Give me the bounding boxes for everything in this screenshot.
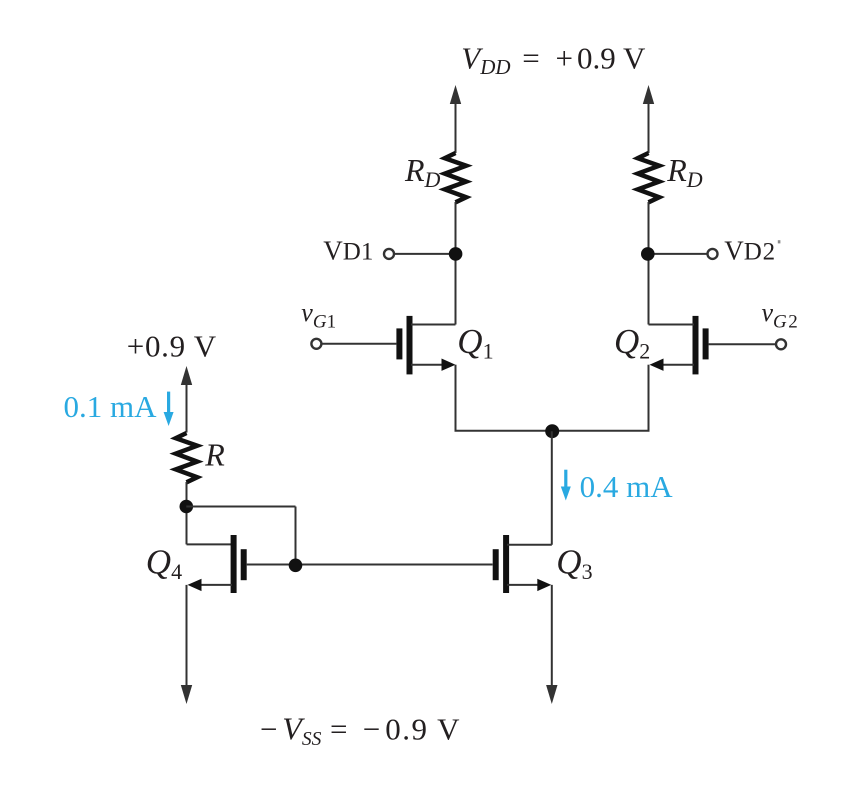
wire vD2 stub	[649, 253, 708, 255]
resistor RD2	[638, 153, 659, 202]
terminal vD1 open circle	[384, 249, 394, 259]
wire Q3 source down with arrow	[546, 585, 557, 704]
svg-text:RD: RD	[666, 152, 703, 192]
svg-text:VDD=+0.9 V: VDD=+0.9 V	[461, 41, 646, 79]
Q4 source wire with arrow	[198, 584, 232, 586]
svg-text:Q1: Q1	[457, 322, 493, 364]
Q1 gate wire	[322, 343, 397, 345]
Q2 source wire with arrow	[660, 364, 694, 366]
wire gate rail Q4 to Q3	[247, 564, 493, 566]
Q3 drain wire	[507, 544, 552, 546]
Q2 gate bar	[703, 328, 709, 359]
wire Q4 drain horizontal	[187, 543, 235, 545]
Q4 gate bar	[241, 549, 247, 580]
terminal vG1 open circle	[311, 339, 321, 349]
wire Q1 source down	[455, 365, 457, 431]
Q1 gate bar	[396, 328, 402, 359]
wire Q4 source down with arrow	[181, 585, 192, 704]
transistor Q3	[493, 535, 552, 593]
Q1 drain wire	[411, 324, 456, 326]
svg-text:vG1: vG1	[301, 298, 336, 333]
transistor Q4	[188, 535, 247, 593]
Q1 source wire with arrow	[411, 364, 445, 366]
svg-text:vG2: vG2	[762, 298, 798, 333]
current arrow 0.4 mA (cyan)	[561, 470, 571, 501]
Q3 source wire with arrow	[507, 584, 541, 586]
transistor Q2	[649, 316, 787, 375]
svg-text:−VSS=−0.9 V: −VSS=−0.9 V	[260, 710, 461, 750]
svg-text:Q3: Q3	[556, 542, 592, 584]
wire R bottom through node to Q4 drain corner	[186, 482, 188, 544]
Q4 channel bar	[231, 535, 237, 593]
node gate rail junction dot	[289, 559, 303, 573]
wire diode connection node to gate column	[186, 506, 295, 508]
Q3 channel bar	[503, 535, 509, 593]
svg-text:VD2: VD2	[724, 236, 776, 266]
wire left supply with up arrow	[450, 85, 461, 153]
transistor Q1	[311, 316, 455, 375]
svg-text:0.1 mA: 0.1 mA	[64, 389, 158, 424]
node R bottom junction dot	[180, 500, 194, 514]
node common source junction dot	[545, 424, 559, 438]
terminal vG2 open circle	[776, 339, 786, 349]
Q2 gate wire	[709, 343, 780, 345]
Q3 gate bar	[493, 549, 499, 580]
resistor RD1	[445, 153, 466, 202]
Q2 drain wire	[649, 324, 695, 326]
wire right branch RD2 bottom to Q2 drain	[648, 202, 650, 325]
resistor R	[176, 433, 197, 482]
wire vD1 stub	[394, 253, 456, 255]
wire Q2 source down	[648, 365, 650, 431]
svg-text:RD: RD	[404, 152, 441, 192]
svg-text:Q2: Q2	[614, 322, 650, 364]
current arrow 0.1 mA (cyan)	[164, 392, 174, 426]
wire common source rail	[455, 430, 650, 432]
node vD2 junction dot	[641, 247, 655, 261]
Q1 channel bar	[407, 316, 413, 375]
stray speck artifact	[778, 240, 781, 243]
wire bias supply with up arrow	[181, 366, 192, 433]
Q2 channel bar	[693, 316, 699, 375]
wire gate column down	[295, 507, 297, 566]
svg-text:0.4 mA: 0.4 mA	[580, 469, 674, 504]
svg-text:R: R	[204, 437, 225, 473]
wire common node down to Q3 drain	[551, 431, 553, 545]
wire left branch RD1 bottom to Q1 drain	[455, 202, 457, 325]
svg-text:VD1: VD1	[323, 236, 373, 266]
wire right supply with up arrow	[643, 85, 654, 153]
svg-text:Q4: Q4	[146, 542, 182, 584]
svg-text:+0.9 V: +0.9 V	[127, 329, 217, 364]
node vD1 junction dot	[449, 247, 463, 261]
terminal vD2 open circle	[708, 249, 718, 259]
